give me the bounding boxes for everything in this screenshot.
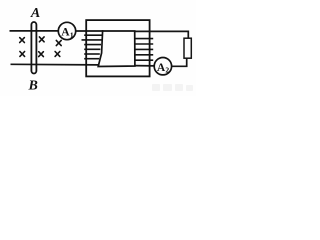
wire: secondary top to resistor (horizontal then down) <box>135 31 189 38</box>
wire: top rail from left end to ammeter A1 <box>10 30 59 32</box>
wire: secondary bottom to ammeter A2 <box>135 65 155 67</box>
magnetic field symbol: cross 1 (left of rod, upper) <box>20 38 25 43</box>
svg-text:1: 1 <box>70 30 74 39</box>
wire: bottom rail from left end to transformer window corner <box>11 63 99 66</box>
resistor R (load) <box>184 38 191 58</box>
magnetic field symbol: cross 5 (below ammeter A1, upper) <box>56 40 61 45</box>
ammeter A1 <box>58 22 75 39</box>
magnetic field symbol: cross 3 (right of rod, upper) <box>39 37 44 42</box>
svg-text:2: 2 <box>165 66 169 75</box>
wire: ammeter A1 to transformer primary <box>76 30 104 32</box>
primary winding turns (left leg rungs) <box>82 35 103 59</box>
transformer core outer boundary <box>86 20 149 76</box>
faint scan watermark bottom right <box>152 84 193 91</box>
ammeter A2 <box>154 57 171 74</box>
magnetic field symbol: cross 4 (right of rod, lower) <box>39 52 44 57</box>
svg-text:B: B <box>28 78 38 93</box>
magnetic field symbol: cross 6 (below ammeter A1, lower) <box>55 52 60 57</box>
magnetic field symbol: cross 2 (left of rod, lower) <box>20 52 25 57</box>
transformer core window (inner opening) <box>98 31 135 67</box>
conductor rod AB (vertical sliding rod, drawn as thin rounded outline) <box>31 22 36 74</box>
wire: resistor bottom lead down to bottom secondary wire <box>171 58 187 66</box>
secondary winding turns (right leg rungs) <box>135 39 153 61</box>
svg-text:A: A <box>30 6 40 21</box>
